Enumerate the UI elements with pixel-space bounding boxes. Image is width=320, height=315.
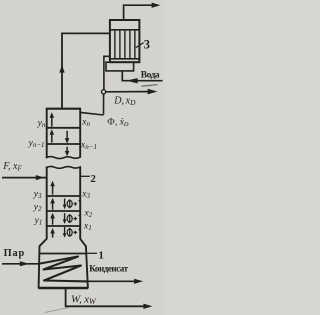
condenser tube 3 [124, 31, 126, 58]
svg-text:D,xD: D,xD [113, 96, 136, 108]
vessel left wall [38, 246, 41, 289]
svg-text:yn−1: yn−1 [28, 138, 45, 149]
scan artifact streak right [142, 85, 158, 87]
flow row 2: digit one [79, 215, 81, 224]
svg-text:xn−1: xn−1 [80, 140, 97, 151]
column lower section right wall [79, 167, 81, 239]
reboiler top line [39, 253, 86, 255]
flow row 2: arrow down [64, 213, 66, 221]
wire condensate out [88, 280, 135, 282]
scan artifact streak bottom left [45, 308, 69, 313]
condenser tube 2 [119, 31, 121, 58]
arrow liquid down below tray n-1 [66, 147, 68, 153]
svg-text:y1: y1 [34, 216, 43, 227]
svg-text:y3: y3 [33, 189, 42, 200]
svg-text:yn: yn [37, 119, 46, 130]
arrowhead feed [36, 175, 44, 180]
flow row 1: Phi symbol [67, 200, 72, 207]
flow row 3: arrow down [64, 227, 66, 235]
arrow vapor up through tray n [51, 115, 53, 126]
condenser bottom header line [110, 58, 139, 60]
arrowhead condensate [134, 279, 143, 284]
condenser tube 1 [114, 31, 116, 58]
svg-text:2: 2 [90, 173, 96, 185]
arrowhead vapor up [59, 65, 64, 73]
svg-text:Вода: Вода [141, 70, 160, 80]
paper background [0, 0, 164, 315]
wire distillate D [106, 91, 148, 93]
vessel right wall [86, 246, 88, 289]
arrow vapor up through tray 2 [52, 216, 54, 225]
flow row 3: plus sign [74, 231, 78, 235]
svg-text:y2: y2 [33, 203, 42, 214]
arrow liquid down to tray n-1 [66, 131, 68, 140]
tray 2 [47, 210, 80, 212]
svg-text:Конденсат: Конденсат [89, 263, 128, 273]
flow row 2: Phi symbol [67, 215, 72, 222]
arrowhead water outlet [152, 3, 161, 8]
wire steam inlet [2, 263, 40, 265]
vessel bottom [38, 287, 88, 289]
flow row 3: Phi symbol [67, 229, 72, 236]
arrowhead W [143, 304, 152, 309]
label 2 leader dash [81, 175, 90, 177]
flow row 1: plus sign [74, 202, 78, 206]
svg-text:x2: x2 [84, 208, 93, 219]
svg-text:x1: x1 [83, 221, 92, 232]
wire feed line F [2, 177, 47, 179]
wire bottoms W outlet [66, 289, 145, 307]
label 3 leader [136, 43, 144, 48]
svg-text:3: 3 [144, 37, 150, 51]
flow row 2: plus sign [74, 217, 78, 221]
arrowhead D [148, 89, 158, 95]
vessel shoulder left [39, 239, 46, 246]
column upper section wavy break bottom [46, 157, 81, 159]
tray 3 [47, 195, 80, 197]
wire cooling water outlet top [124, 5, 153, 20]
wire cooling water inlet [122, 71, 162, 81]
condenser bottom water channel [106, 62, 134, 71]
flow row 1: digit one [79, 200, 81, 209]
tray n-1 [47, 143, 80, 145]
arrowhead water inlet left [126, 78, 137, 83]
vessel shoulder right [80, 239, 86, 246]
reboiler steam coil [40, 257, 88, 282]
wire vapor riser from column top to condenser [62, 33, 110, 108]
arrow vapor up above tray 3 [52, 184, 54, 195]
arrow vapor up through tray n-1 [51, 132, 53, 142]
column lower section wavy break top [46, 166, 81, 168]
flow row 1: arrow down [64, 198, 66, 206]
tray n [47, 127, 80, 129]
label 1 leader dash [87, 252, 97, 254]
svg-text:xn: xn [81, 117, 90, 128]
wire condensate drain from condenser [104, 56, 110, 89]
svg-text:Пар: Пар [4, 248, 26, 259]
column lower section left wall [46, 167, 48, 239]
arrow vapor up through tray 1 [52, 231, 54, 238]
condenser tube 4 [129, 31, 131, 58]
column upper section right wall [79, 108, 81, 157]
svg-text:1: 1 [98, 250, 104, 262]
arrow vapor up through tray 3 [52, 201, 54, 210]
column upper section top edge [46, 108, 81, 110]
flow row 3: digit one [79, 228, 81, 237]
condenser tube 5 [134, 31, 136, 58]
column upper section left wall [46, 108, 48, 158]
wire reflux line [103, 94, 105, 115]
tray 1 [47, 225, 80, 227]
condenser top header line [110, 29, 139, 31]
svg-text:x3: x3 [81, 190, 90, 201]
arrowhead steam [20, 261, 30, 266]
condenser U3 shell box [110, 20, 139, 62]
node junction distillate/reflux [102, 90, 106, 94]
wire reflux entry to column [80, 112, 103, 115]
